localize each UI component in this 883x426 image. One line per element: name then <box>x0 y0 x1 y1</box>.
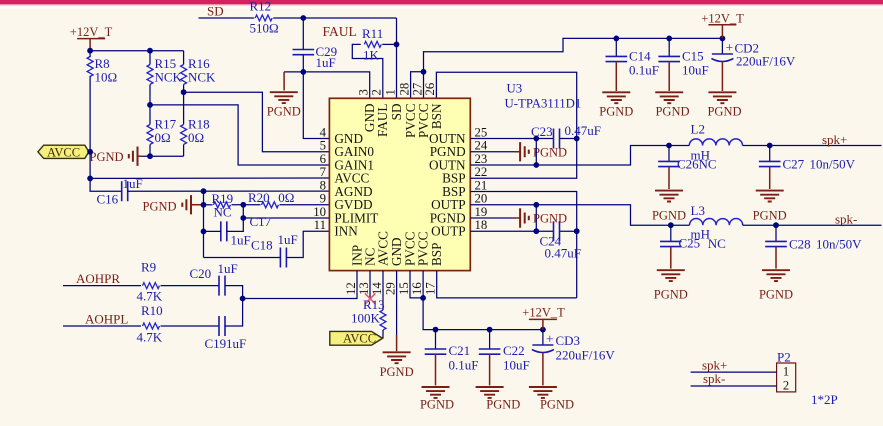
svg-text:PGND: PGND <box>652 209 686 223</box>
svg-text:0.1uF: 0.1uF <box>629 63 659 78</box>
wire C16 to AGND pin 8 <box>127 190 329 192</box>
wire R17/R18 bottom tie <box>141 155 184 157</box>
wire C17 left lead <box>204 230 222 232</box>
svg-text:1uF: 1uF <box>316 55 336 70</box>
svg-text:0Ω: 0Ω <box>155 130 171 145</box>
no-connect X pin 13 <box>369 271 371 298</box>
svg-text:C18: C18 <box>251 238 273 253</box>
wire C18 right lead to INN pin 11 <box>286 231 329 257</box>
wire pin 16 PVCC down to cap rail <box>423 271 543 330</box>
wire pin 26 BSN to C23 <box>436 72 576 138</box>
svg-text:17: 17 <box>424 282 438 295</box>
wire C29 top lead <box>302 18 304 50</box>
wire AOHPR to R9 <box>63 285 141 287</box>
resistor R16 <box>181 65 187 85</box>
resistor R8 <box>87 57 93 77</box>
op-amp U3 U-TPA3111D1 body <box>329 98 470 270</box>
wire R9 to C20 <box>161 285 220 287</box>
wire SD rail left <box>199 17 255 19</box>
svg-text:PGND: PGND <box>420 398 454 412</box>
svg-text:21: 21 <box>475 178 488 192</box>
ground PGND (sideways, filter column) <box>182 195 191 214</box>
svg-text:PGND: PGND <box>143 200 177 214</box>
svg-text:BSN: BSN <box>429 103 444 129</box>
resistor R9 <box>143 283 160 289</box>
svg-text:510Ω: 510Ω <box>250 21 279 36</box>
svg-text:R12: R12 <box>250 0 272 14</box>
svg-text:AVCC: AVCC <box>47 145 80 159</box>
svg-text:C28: C28 <box>789 237 811 252</box>
resistor R12 <box>255 15 272 21</box>
wire AOHPL to R10 <box>63 325 141 327</box>
svg-text:NCK: NCK <box>188 70 216 85</box>
node SD / C29 top <box>300 15 306 21</box>
capacitor C19 <box>219 316 225 336</box>
node INP junction <box>240 296 246 302</box>
resistor R10 <box>143 323 160 329</box>
svg-text:PGND: PGND <box>90 150 124 164</box>
node +12V_T / R8 top <box>87 48 93 54</box>
svg-text:4.7K: 4.7K <box>137 330 163 345</box>
node OUTP tie bottom <box>533 228 539 234</box>
wire pin 18 OUTP to C24 left <box>470 230 553 232</box>
svg-text:C27: C27 <box>783 157 805 172</box>
svg-text:27: 27 <box>410 82 424 95</box>
svg-text:C16: C16 <box>97 192 119 207</box>
svg-text:C19: C19 <box>205 336 227 351</box>
capacitor C21 <box>435 330 437 350</box>
svg-text:13: 13 <box>357 282 371 295</box>
svg-text:19: 19 <box>475 205 488 219</box>
wire pin 4 GND connection <box>303 72 329 139</box>
svg-text:NCK: NCK <box>155 70 183 85</box>
wire R18 bottom lead <box>183 145 185 157</box>
svg-text:C20: C20 <box>190 266 212 281</box>
wire R16 top lead <box>183 51 185 65</box>
svg-text:+: + <box>726 40 734 55</box>
inductor L2 <box>689 139 742 146</box>
svg-text:10uF: 10uF <box>503 358 530 373</box>
wire +12V_T rail to R15/R16 <box>90 50 184 52</box>
wire pin 27 PVCC to +12V rail <box>424 38 723 98</box>
svg-text:L3: L3 <box>691 203 705 218</box>
ground PGND (under C29) <box>270 92 298 103</box>
wire R13 bottom lead <box>382 330 384 338</box>
capacitor C23 <box>554 129 560 149</box>
wire spk+ to P2 pin 1 <box>691 371 777 373</box>
node C28 / spk- <box>773 222 779 228</box>
wire to PGND stem <box>284 71 303 73</box>
svg-text:spk-: spk- <box>703 371 725 386</box>
wire pin 21 BSP down to pin 17 <box>470 192 576 298</box>
inductor L3 <box>690 219 743 226</box>
svg-text:4: 4 <box>320 125 327 139</box>
wire pin 23 OUTN to L2 <box>470 146 669 166</box>
svg-text:PGND: PGND <box>707 105 741 119</box>
node rail / C14 <box>613 36 619 42</box>
wire R16 bottom to R18 <box>183 85 185 125</box>
node PVCC pins 15/16 <box>420 295 426 301</box>
node rail / C22 <box>487 327 493 333</box>
resistor R18 <box>181 125 187 145</box>
svg-text:OUTP: OUTP <box>431 224 465 239</box>
svg-text:C21: C21 <box>449 343 471 358</box>
wire R10 to C19 <box>161 325 220 327</box>
node R16 bottom / GAIN0 net <box>181 89 187 95</box>
ground PGND (sideways, pin 19) <box>520 208 529 227</box>
power flag AVCC (left) <box>38 145 89 158</box>
svg-text:0Ω: 0Ω <box>278 190 294 205</box>
node filter column / C17 <box>201 229 207 235</box>
svg-text:0.47uF: 0.47uF <box>545 246 581 261</box>
svg-text:29: 29 <box>383 282 397 295</box>
svg-text:C17: C17 <box>250 214 272 229</box>
svg-text:1uF: 1uF <box>278 232 298 247</box>
svg-text:PGND: PGND <box>753 209 787 223</box>
svg-text:0.47uF: 0.47uF <box>565 123 601 138</box>
svg-text:C15: C15 <box>682 48 704 63</box>
svg-text:U3: U3 <box>507 82 523 96</box>
wire L3 to spk- <box>743 224 882 226</box>
node PLIMIT / C17 right <box>240 215 246 221</box>
wire R11 right lead <box>382 43 396 45</box>
wire pin 15 PVCC tie <box>410 271 423 298</box>
node rail / C21 <box>433 327 439 333</box>
svg-text:25: 25 <box>475 125 488 139</box>
node OUTN tie top <box>533 136 539 142</box>
svg-text:CD3: CD3 <box>556 333 581 348</box>
wire L2 left lead <box>669 145 689 147</box>
wire spk- to P2 pin 2 <box>691 385 777 387</box>
ground PGND (C28) <box>762 270 790 281</box>
svg-text:R9: R9 <box>141 260 156 275</box>
svg-text:1: 1 <box>383 89 397 95</box>
svg-text:C23: C23 <box>531 124 553 139</box>
wire pin 22 BSP to BSN node <box>470 139 576 179</box>
svg-text:SD: SD <box>207 4 224 19</box>
svg-text:23: 23 <box>475 152 488 166</box>
wire R19-R20 link <box>232 204 261 206</box>
connector P2 <box>777 363 796 392</box>
capacitor C27 <box>769 146 771 162</box>
wire C20 to INP node <box>225 286 243 299</box>
svg-text:R10: R10 <box>141 303 163 318</box>
resistor R11 <box>364 41 381 47</box>
svg-text:+12V_T: +12V_T <box>701 12 744 26</box>
node AVCC / pin7 net <box>87 176 93 182</box>
svg-text:R20: R20 <box>248 190 270 205</box>
svg-text:PGND: PGND <box>540 398 574 412</box>
wire pin 28 PVCC tie <box>411 72 424 99</box>
resistor R17 <box>147 125 153 145</box>
node rail / R15 top <box>147 48 153 54</box>
svg-text:1uF: 1uF <box>231 233 251 248</box>
svg-text:1uF: 1uF <box>218 261 238 276</box>
wire R17 bottom lead <box>149 145 151 157</box>
svg-text:R11: R11 <box>362 26 383 41</box>
wire pin 25 OUTN to C23 left <box>470 138 553 140</box>
node rail / CD3 / +12V_T <box>540 327 546 333</box>
wire R15 bottom to R17 <box>149 85 151 125</box>
capacitor C22 <box>489 330 491 350</box>
svg-text:PGND: PGND <box>486 398 520 412</box>
svg-text:AOHPR: AOHPR <box>76 271 120 286</box>
ground PGND (sideways, pin 24) <box>520 142 529 161</box>
svg-text:AVCC: AVCC <box>343 332 376 346</box>
wire pin 24 PGND stub <box>470 151 514 153</box>
svg-text:2: 2 <box>783 379 789 393</box>
svg-text:9: 9 <box>320 192 326 206</box>
capacitor C29 <box>293 50 315 55</box>
svg-text:1uF: 1uF <box>226 336 246 351</box>
node AGND net / filter column <box>201 188 207 194</box>
svg-text:+12V_T: +12V_T <box>522 305 565 319</box>
svg-text:15: 15 <box>397 282 411 295</box>
capacitor CD3 (polarized) <box>542 330 544 345</box>
node L2 in / C26 <box>666 143 672 149</box>
svg-text:SD: SD <box>389 104 404 121</box>
wire R20 to GVDD pin 9 <box>280 204 330 206</box>
wire OUTN pins 25/23 tie <box>535 139 537 166</box>
wire pin 3 GND connection <box>303 72 369 98</box>
resistor R15 <box>147 65 153 85</box>
svg-text:1uF: 1uF <box>123 176 143 191</box>
ground PGND (C25) <box>657 270 685 281</box>
wire R8 top lead <box>89 51 91 57</box>
svg-text:PGND: PGND <box>759 288 793 302</box>
wire junction down to PLIMIT pin 10 <box>243 205 329 218</box>
svg-text:10uF: 10uF <box>682 63 709 78</box>
node C27 / spk+ <box>767 143 773 149</box>
svg-text:PGND: PGND <box>654 288 688 302</box>
title bar <box>0 0 883 4</box>
svg-text:C25: C25 <box>679 236 701 251</box>
svg-text:4.7K: 4.7K <box>137 289 163 304</box>
node R17 bottom tie <box>147 153 153 159</box>
svg-text:0.1uF: 0.1uF <box>449 358 479 373</box>
wire C29 bottom lead <box>302 55 304 72</box>
wire C18 left lead <box>204 257 281 259</box>
capacitor C28 <box>775 225 777 241</box>
svg-text:6: 6 <box>320 152 327 166</box>
node rail / C15 <box>666 36 672 42</box>
svg-text:28: 28 <box>397 83 411 96</box>
node R19/R20 junction <box>240 202 246 208</box>
svg-text:5: 5 <box>320 139 326 153</box>
capacitor C15 <box>668 38 670 56</box>
svg-text:10n/50V: 10n/50V <box>810 157 856 172</box>
node L3 in / C25 <box>668 222 674 228</box>
wire L2 to spk+ <box>743 145 882 147</box>
svg-text:PGND: PGND <box>655 105 689 119</box>
svg-text:100K: 100K <box>351 311 381 326</box>
svg-text:10: 10 <box>313 205 326 219</box>
svg-text:1*2P: 1*2P <box>811 392 838 407</box>
ground PGND (CD3) <box>529 387 557 398</box>
resistor R19 <box>214 202 231 208</box>
capacitor C24 <box>554 221 560 241</box>
svg-text:PGND: PGND <box>533 212 567 226</box>
node SD / R11 <box>394 42 400 48</box>
svg-text:INN: INN <box>334 224 358 239</box>
node rail / CD2 / +12V_T <box>720 36 726 42</box>
wire OUTP pins 20/18 tie <box>535 205 537 231</box>
capacitor C17 <box>221 221 227 241</box>
resistor R20 <box>262 202 279 208</box>
wire filter column vertical <box>203 191 205 257</box>
svg-text:P2: P2 <box>777 350 791 365</box>
ground PGND (C15) <box>655 92 683 103</box>
svg-text:0Ω: 0Ω <box>188 130 204 145</box>
svg-text:C26: C26 <box>677 157 699 172</box>
wire FAUL pin 2 to R11 <box>352 44 383 98</box>
node OUTP tie top <box>533 202 539 208</box>
svg-text:3: 3 <box>357 89 371 95</box>
wire pin 20 OUTP to L3 <box>470 205 671 225</box>
svg-text:U-TPA3111D1: U-TPA3111D1 <box>505 97 582 111</box>
svg-text:7: 7 <box>320 165 327 179</box>
svg-text:10n/50V: 10n/50V <box>816 237 862 252</box>
svg-text:PGND: PGND <box>267 105 301 119</box>
node OUTN tie bottom <box>533 162 539 168</box>
capacitor CD2 (polarized) <box>721 38 723 54</box>
node R15 bottom / GAIN1 net <box>147 102 153 108</box>
svg-text:10Ω: 10Ω <box>95 70 118 85</box>
node BSN / C23 <box>574 136 580 142</box>
svg-text:NC: NC <box>214 205 232 220</box>
wire GAIN0 net R16 to pin 5 <box>184 92 330 152</box>
svg-text:AOHPL: AOHPL <box>85 311 128 326</box>
ground PGND (C14) <box>602 92 630 103</box>
svg-text:26: 26 <box>423 82 437 95</box>
svg-text:16: 16 <box>410 282 424 295</box>
ground PGND (C27) <box>756 191 784 202</box>
svg-text:+: + <box>546 332 554 347</box>
svg-text:NC: NC <box>708 236 726 251</box>
svg-text:20: 20 <box>475 192 488 206</box>
svg-text:220uF/16V: 220uF/16V <box>736 54 796 69</box>
node BSP / C24 <box>574 228 580 234</box>
svg-text:11: 11 <box>314 218 326 232</box>
wire R15 top lead <box>149 51 151 65</box>
svg-text:+12V_T: +12V_T <box>70 25 113 39</box>
svg-text:BSP: BSP <box>429 243 444 266</box>
svg-text:14: 14 <box>370 282 384 295</box>
svg-text:PGND: PGND <box>533 145 567 159</box>
ground PGND (C26) <box>655 191 683 202</box>
capacitor C16 <box>122 181 128 201</box>
wire L3 left lead <box>671 224 690 226</box>
ground PGND (sideways, R17/R18) <box>129 147 138 166</box>
svg-text:L2: L2 <box>691 122 705 137</box>
wire C23 right lead <box>560 138 577 140</box>
resistor R13 <box>382 271 384 310</box>
node C29 / pin3 / pin4 / PGND <box>300 69 306 75</box>
svg-text:spk+: spk+ <box>822 132 847 147</box>
svg-text:12: 12 <box>344 282 358 295</box>
capacitor C25 <box>670 225 672 241</box>
wire C17 right lead up <box>227 218 244 231</box>
svg-text:C22: C22 <box>503 343 525 358</box>
wire SD rail right <box>273 17 396 19</box>
svg-text:24: 24 <box>475 139 488 153</box>
svg-text:1K: 1K <box>363 48 380 63</box>
svg-text:8: 8 <box>320 178 326 192</box>
svg-text:spk-: spk- <box>835 212 857 227</box>
wire R19 left lead <box>204 204 213 206</box>
ground PGND (C21) <box>422 387 450 398</box>
svg-text:FAUL: FAUL <box>323 24 357 39</box>
wire SD vertical to pin 1 <box>396 18 398 98</box>
node PVCC pins 27/28 <box>421 69 427 75</box>
svg-text:22: 22 <box>475 165 488 179</box>
svg-text:2: 2 <box>370 89 384 95</box>
ground PGND (CD2) <box>708 92 736 103</box>
svg-text:NC: NC <box>699 157 717 172</box>
capacitor C18 <box>280 248 286 268</box>
wire pin 12 INP input <box>243 271 357 299</box>
svg-text:C14: C14 <box>629 48 651 63</box>
capacitor C20 <box>219 276 225 296</box>
wire GAIN1 net R15 to pin 6 <box>150 105 329 165</box>
capacitor C26 <box>668 146 670 162</box>
wire AVCC net to pin 7 <box>90 177 329 179</box>
svg-text:220uF/16V: 220uF/16V <box>556 348 616 363</box>
svg-text:18: 18 <box>475 218 488 232</box>
wire pin 17 BSP over to right <box>437 271 577 298</box>
svg-text:PGND: PGND <box>380 365 414 379</box>
wire C19 to INP node <box>225 299 243 327</box>
ground pin 29 <box>396 271 398 335</box>
wire pin 19 PGND stub <box>470 217 514 219</box>
node AVCC flag tip <box>87 149 93 155</box>
power flag AVCC (bottom) <box>330 331 383 345</box>
node filter column / R19 <box>201 202 207 208</box>
wire C24 right lead <box>560 230 577 232</box>
capacitor C14 <box>615 38 617 56</box>
svg-text:PGND: PGND <box>599 105 633 119</box>
wire R8 bottom to AVCC node and C16 <box>90 76 122 191</box>
ground PGND (C22) <box>476 387 504 398</box>
svg-text:1: 1 <box>783 365 789 379</box>
